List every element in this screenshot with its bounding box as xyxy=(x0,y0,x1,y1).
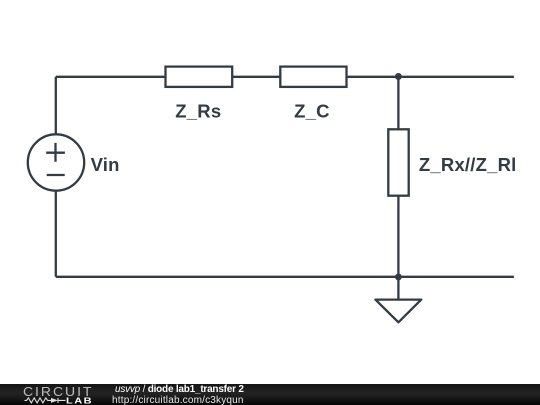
svg-text:Z_C: Z_C xyxy=(294,101,330,122)
svg-text:Z_Rx//Z_Rl: Z_Rx//Z_Rl xyxy=(419,154,517,175)
svg-text:Vin: Vin xyxy=(91,154,120,175)
svg-text:Z_Rs: Z_Rs xyxy=(175,101,221,122)
